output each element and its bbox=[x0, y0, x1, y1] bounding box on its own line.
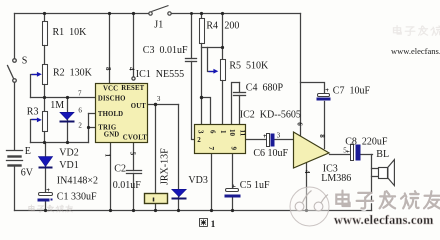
resistor R3 (pot) bbox=[43, 112, 48, 132]
wire C7 branch bbox=[301, 83, 325, 94]
svg-text:3: 3 bbox=[196, 130, 204, 134]
wire C3 to IC2 pin2 bbox=[192, 62, 195, 140]
wire IC1 pin2 stub bbox=[89, 127, 96, 129]
svg-text:S: S bbox=[22, 56, 28, 67]
capacitor C8 (electrolytic, horizontal) bbox=[347, 145, 361, 161]
switch J1 bbox=[149, 6, 171, 16]
watermark dianzi (bottom left, faint) bbox=[29, 205, 73, 212]
svg-text:R2 130K: R2 130K bbox=[53, 68, 93, 79]
wire bottom ground rail bbox=[15, 210, 372, 212]
wire R4 bottom to IC2 pin3 bbox=[201, 44, 203, 125]
svg-text:R1 10K: R1 10K bbox=[53, 27, 88, 38]
wire pins 6-2 riser bbox=[88, 114, 90, 143]
capacitor C6 (electrolytic, horizontal) bbox=[264, 134, 275, 147]
svg-text:11: 11 bbox=[239, 130, 247, 137]
svg-text:DISCHO: DISCHO bbox=[98, 95, 126, 102]
wire IC1 pin1 to ground bbox=[110, 143, 112, 211]
svg-text:C2: C2 bbox=[114, 164, 126, 175]
wire IC1 pin8 drop bbox=[109, 14, 111, 84]
potentiometer arrow R2 bbox=[32, 72, 42, 77]
svg-text:1: 1 bbox=[219, 130, 227, 134]
wire C6 to IC3 input bbox=[275, 139, 294, 141]
wire IC3 pin4 to ground bbox=[306, 162, 308, 211]
wire C2 bottom bbox=[133, 174, 135, 211]
svg-text:JRX-13F: JRX-13F bbox=[160, 148, 171, 185]
wire C5 bottom bbox=[232, 198, 234, 211]
svg-text:CVOLT: CVOLT bbox=[123, 134, 147, 141]
wire R3 bottom bbox=[44, 132, 46, 143]
svg-text:VCC: VCC bbox=[103, 86, 118, 93]
svg-text:VD3: VD3 bbox=[188, 175, 207, 186]
wire left rail upper bbox=[14, 14, 16, 59]
wire left rail lower bbox=[14, 167, 16, 211]
svg-text:1: 1 bbox=[104, 154, 112, 158]
svg-text:5: 5 bbox=[343, 147, 347, 155]
svg-text:RESET: RESET bbox=[121, 85, 144, 92]
wire IC1 pin3 OUT horizontal bbox=[148, 104, 179, 106]
svg-text:C4 680P: C4 680P bbox=[246, 83, 284, 94]
battery E 6V bbox=[7, 151, 23, 166]
wire IC1 pin4 drop bbox=[133, 14, 135, 77]
wire VD2 vertical bbox=[67, 98, 69, 143]
svg-text:2: 2 bbox=[197, 136, 201, 144]
wire C4 top bbox=[239, 83, 241, 93]
wire VD1/C1 vertical bbox=[45, 143, 47, 193]
wire relay drop bbox=[155, 105, 157, 194]
wire R5 wiper drop bbox=[208, 48, 215, 72]
svg-text:200: 200 bbox=[224, 21, 239, 32]
svg-text:3: 3 bbox=[157, 95, 161, 103]
capacitor C1 (electrolytic) bbox=[38, 189, 53, 202]
svg-text:3: 3 bbox=[277, 132, 281, 140]
capacitor C2 bbox=[127, 171, 142, 174]
wire R1 top bbox=[44, 14, 46, 22]
svg-text:6: 6 bbox=[296, 122, 304, 126]
svg-text:R4: R4 bbox=[206, 21, 218, 32]
switch S bbox=[8, 59, 17, 83]
svg-text:2: 2 bbox=[78, 121, 82, 129]
wire IC3 output to C8 bbox=[330, 154, 351, 156]
wire IC2 pin7 to ground bbox=[211, 154, 213, 211]
svg-text:R3: R3 bbox=[27, 107, 39, 118]
watermark dianzifashaoyou (top right, faint) bbox=[393, 26, 440, 36]
diode VD3 bbox=[172, 189, 187, 199]
wire VD3 drop bbox=[178, 105, 180, 211]
capacitor C3 bbox=[186, 59, 197, 62]
svg-text:6: 6 bbox=[208, 130, 216, 134]
caption 图 1 bbox=[200, 218, 208, 226]
svg-text:VD1: VD1 bbox=[59, 160, 78, 171]
watermark text dianzifashaoyou (bottom right) bbox=[336, 191, 440, 210]
relay coil JRX-13F box bbox=[145, 194, 168, 204]
resistor R1 bbox=[43, 22, 48, 46]
capacitor C4 bbox=[234, 93, 246, 96]
wire top rail right segment bbox=[172, 13, 301, 15]
wire IC1 pin5 to C2 bbox=[133, 143, 135, 171]
op-amp U IC1 NE555 box bbox=[96, 84, 148, 143]
svg-text:C6 10uF: C6 10uF bbox=[253, 148, 288, 159]
wire R3 wiper return bbox=[31, 120, 39, 143]
wire C3 drop from rail bbox=[191, 14, 193, 59]
speaker BL bbox=[379, 160, 395, 186]
wire IC1 pin6 stub bbox=[89, 113, 96, 115]
svg-text:9: 9 bbox=[230, 147, 238, 151]
wire R4 top bbox=[201, 14, 203, 19]
watermark logo circles (bottom right) bbox=[290, 187, 329, 226]
svg-text:1M: 1M bbox=[50, 100, 64, 111]
potentiometer arrow R3 bbox=[32, 118, 42, 123]
svg-text:BL: BL bbox=[376, 149, 389, 160]
diode VD1 bbox=[38, 157, 52, 169]
wire C7 to IC3 pin8 bbox=[324, 102, 326, 149]
wire branch to IC2 pin6 bbox=[202, 98, 211, 125]
svg-text:8: 8 bbox=[318, 134, 326, 138]
wire node trig horizontal y143 bbox=[31, 142, 89, 144]
svg-text:6: 6 bbox=[78, 106, 82, 114]
wire node pin7 horizontal bbox=[31, 97, 96, 99]
svg-text:www.elecfans.c: www.elecfans.c bbox=[391, 46, 440, 56]
svg-text:7: 7 bbox=[78, 89, 82, 97]
wire C4 to IC2 pin11 bbox=[239, 96, 241, 125]
wire IC2 out to C6 bbox=[246, 139, 267, 141]
wire R5 bottom to IC2 pin1 bbox=[222, 81, 224, 125]
wire IC3 pin6 supply drop bbox=[300, 14, 302, 136]
diode VD2 bbox=[60, 112, 75, 122]
resistor R5 (pot) bbox=[221, 60, 226, 81]
svg-text:4: 4 bbox=[303, 170, 311, 174]
wire R4-R5 link y47 bbox=[202, 47, 223, 49]
wire R2 wiper return bbox=[31, 75, 39, 98]
svg-text:C8 220uF: C8 220uF bbox=[345, 136, 388, 147]
resistor R4 bbox=[200, 19, 205, 44]
wire C1 bottom bbox=[45, 202, 47, 211]
svg-text:8: 8 bbox=[104, 67, 112, 71]
svg-text:OUT: OUT bbox=[131, 103, 146, 110]
svg-text:IC1 NE555: IC1 NE555 bbox=[136, 69, 184, 80]
potentiometer arrow R5 bbox=[209, 69, 219, 74]
svg-text:C1 330uF: C1 330uF bbox=[57, 192, 97, 203]
svg-text:C3 0.01uF: C3 0.01uF bbox=[143, 45, 188, 56]
IC2 KD-5605 box bbox=[195, 125, 246, 154]
wire R2 to R3 bbox=[44, 85, 46, 112]
op-amp IC3 LM386 triangle bbox=[294, 132, 330, 168]
svg-text:IN4148×2: IN4148×2 bbox=[57, 176, 98, 187]
wire top rail left segment bbox=[15, 13, 149, 15]
wire R1 to R2 bbox=[44, 46, 46, 65]
svg-text:C5 1uF: C5 1uF bbox=[240, 180, 270, 191]
svg-text:5: 5 bbox=[128, 152, 136, 156]
wire speaker stubs bbox=[372, 169, 379, 177]
wire IC2 pin10 riser bbox=[232, 83, 240, 125]
pin4 terminal circle bbox=[132, 77, 135, 80]
wire left rail mid bbox=[14, 83, 16, 150]
capacitor C5 (electrolytic) bbox=[225, 185, 241, 198]
svg-text:J1: J1 bbox=[154, 20, 163, 31]
capacitor C7 (electrolytic) bbox=[317, 89, 331, 101]
wire IC2 pin9 to C5 bbox=[232, 154, 234, 189]
wire speaker drop bbox=[371, 155, 373, 211]
svg-text:0.01uF: 0.01uF bbox=[113, 180, 142, 191]
svg-text:GND: GND bbox=[104, 131, 120, 138]
svg-text:R5 510K: R5 510K bbox=[229, 61, 269, 72]
wire C8 to speaker bbox=[361, 154, 373, 156]
svg-text:1: 1 bbox=[211, 220, 216, 230]
svg-text:C7 10uF: C7 10uF bbox=[333, 86, 371, 97]
wire relay to ground bbox=[155, 204, 157, 211]
svg-text:7: 7 bbox=[207, 147, 215, 151]
svg-text:E: E bbox=[25, 146, 31, 157]
svg-text:IC2 KD--5605: IC2 KD--5605 bbox=[240, 109, 301, 120]
svg-text:6V: 6V bbox=[21, 168, 34, 179]
svg-text:VD2: VD2 bbox=[59, 148, 78, 159]
resistor R2 (pot) bbox=[43, 65, 48, 85]
svg-text:LM386: LM386 bbox=[321, 173, 351, 184]
svg-text:4: 4 bbox=[127, 67, 135, 71]
svg-text:10: 10 bbox=[228, 129, 236, 137]
svg-text:THOLD: THOLD bbox=[98, 111, 123, 118]
wire R5 top from rail bbox=[222, 14, 224, 60]
svg-text:www.elecfans.com: www.elecfans.com bbox=[334, 213, 434, 227]
